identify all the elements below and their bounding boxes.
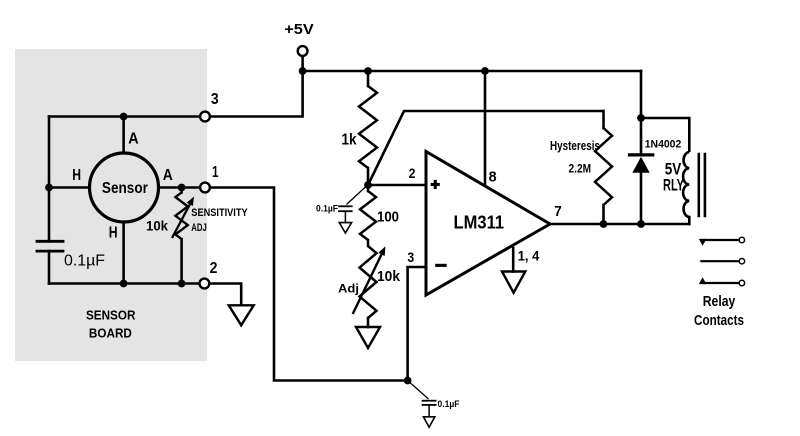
potentiometer sensitivity bottom lead [180, 239, 183, 283]
sensor (circular device) [90, 153, 159, 222]
potentiometer 10k zigzag [367, 240, 370, 246]
ground below 10k pot [356, 327, 380, 348]
ground at terminal 2 [229, 305, 254, 325]
capacitor 0.1uF bottom plates [423, 400, 436, 402]
wire: diode node over to relay coil top [641, 118, 689, 152]
wire: sensor right lead to terminal 1 [158, 186, 200, 189]
ground below node-2 capacitor [339, 223, 351, 233]
svg-text:1N4002: 1N4002 [645, 139, 682, 151]
svg-text:Hysteresis: Hysteresis [550, 139, 600, 153]
wire: feedback from node 2 up-right then to hysteresis resistor [368, 111, 604, 185]
wire: riser from rail down to terminal 3 [210, 71, 303, 117]
svg-text:1, 4: 1, 4 [518, 248, 540, 264]
wire: +5V stub down to top rail [301, 56, 304, 71]
relay contact row 1 [702, 239, 739, 241]
node: diode-relay junction [637, 114, 645, 122]
svg-text:ADJ: ADJ [191, 222, 207, 234]
relay coil K1 (4 loops) [683, 152, 689, 217]
svg-text:1: 1 [212, 164, 219, 181]
capacitor 0.1uF at bottom node (tap line) [408, 381, 429, 400]
svg-text:Sensor: Sensor [102, 180, 148, 197]
resistor hysteresis 2.2M zigzag [595, 128, 612, 205]
node: node 2 junction [364, 181, 372, 189]
relay contact row 3 [702, 282, 739, 284]
wire: terminal 2 to ground [209, 284, 241, 306]
svg-text:Contacts: Contacts [694, 313, 744, 329]
resistor hysteresis 2.2M bottom lead [602, 205, 605, 224]
relay contact terminal 1 [739, 237, 744, 242]
wire: sensor top lead [122, 117, 125, 154]
node: pin-8 rail junction [481, 67, 489, 75]
svg-text:2: 2 [409, 166, 416, 181]
wire: pin 8 from top rail into op-amp [484, 71, 487, 186]
wire: sensor board left vertical (above cap) [48, 117, 51, 242]
terminal 3 [200, 112, 210, 122]
node: pot top junction [178, 184, 186, 192]
svg-text:100: 100 [377, 210, 399, 226]
terminal 2 [200, 279, 210, 289]
node: sensor top-lead junction [120, 113, 128, 121]
node: hysteresis output junction [600, 220, 608, 228]
relay contact row 2 [700, 260, 739, 262]
wire: sensor board top run to terminal 3 [49, 115, 200, 118]
node: 1k top junction [364, 67, 372, 75]
relay coil bottom lead [688, 217, 691, 224]
svg-text:LM311: LM311 [454, 212, 505, 233]
wire: pin 3 stub and riser [408, 267, 426, 381]
svg-text:8: 8 [489, 169, 497, 186]
svg-text:0.1µF: 0.1µF [438, 399, 460, 410]
resistor R 1k (top lead) [367, 71, 370, 86]
label plus input [431, 183, 440, 186]
potentiometer 10k wiper arrow [353, 254, 382, 314]
node: sensor bottom-lead junction [120, 280, 128, 288]
label minus input [435, 264, 447, 267]
diode D1 1N4002 leads [640, 118, 643, 154]
svg-text:A: A [128, 130, 139, 147]
svg-text:0.1µF: 0.1µF [316, 204, 338, 215]
svg-text:H: H [109, 225, 118, 242]
ground at pins 1,4 [502, 272, 525, 293]
svg-text:BOARD: BOARD [89, 326, 132, 341]
relay contact terminal 2 [739, 259, 744, 264]
resistor R 100 zigzag [367, 186, 370, 191]
resistor hysteresis 2.2M lead [602, 111, 605, 128]
node: pot bottom junction [178, 280, 186, 288]
node: bottom-rail junction [404, 377, 412, 385]
svg-text:A: A [163, 167, 173, 184]
svg-text:10k: 10k [377, 269, 401, 285]
node: diode output junction [637, 220, 645, 228]
svg-text:5V: 5V [665, 160, 682, 178]
svg-text:2.2M: 2.2M [569, 163, 592, 176]
terminal 1 [200, 183, 210, 193]
sensor board shaded region [15, 49, 207, 361]
relay core bars [697, 154, 700, 216]
op-amp U1 LM311 triangle [426, 152, 550, 296]
node: sensor left-lead junction [45, 184, 53, 192]
wire: rail corner down to diode node [640, 71, 643, 118]
potentiometer sensitivity wiper arrow [172, 204, 190, 238]
pin 1,4 stub [512, 248, 515, 272]
relay contact terminal 3 [739, 280, 744, 285]
svg-text:SENSOR: SENSOR [86, 308, 136, 323]
wire: sensor board bottom run to terminal 2 [49, 282, 200, 285]
wire: sensor bottom lead [122, 222, 125, 284]
svg-text:SENSITIVITY: SENSITIVITY [191, 207, 247, 219]
resistor R 1k (bottom lead to node 2) [367, 168, 370, 186]
capacitor 0.1uF bottom stub [428, 405, 430, 417]
terminal +5V [298, 46, 308, 56]
capacitor 0.1uF at node 2 plates [339, 205, 352, 207]
wire: sensor board left vertical (below cap) [48, 251, 51, 283]
potentiometer 10k lead to ground [367, 318, 370, 327]
potentiometer 10k SENSITIVITY zigzag [180, 188, 183, 193]
svg-text:+5V: +5V [284, 22, 314, 38]
svg-text:0.1µF: 0.1µF [64, 253, 105, 270]
svg-text:2: 2 [210, 260, 218, 277]
capacitor C 0.1uF sensor board plates [37, 240, 63, 243]
wire: node 2 to op-amp plus input [368, 184, 426, 187]
capacitor 0.1uF node2 stub [344, 211, 346, 222]
svg-text:3: 3 [211, 91, 219, 108]
wire: output pin 7 rail [550, 223, 689, 226]
svg-text:1k: 1k [342, 132, 357, 149]
svg-text:Adj: Adj [338, 282, 359, 296]
svg-text:Relay: Relay [703, 294, 736, 310]
wire: terminal 1 over to inverting-input riser [210, 188, 408, 381]
ground below bottom capacitor [423, 417, 434, 427]
svg-text:RLY: RLY [663, 177, 684, 195]
diode D1 cathode bar [629, 153, 652, 156]
capacitor 0.1uF at node 2 (tap line) [347, 186, 368, 205]
svg-text:10k: 10k [146, 219, 168, 234]
wire: sensor left lead [49, 186, 90, 189]
diode D1 triangle [632, 157, 649, 173]
svg-text:7: 7 [554, 203, 562, 220]
wire: top +5V rail [303, 70, 641, 73]
resistor R 1k zigzag [359, 86, 377, 168]
node: +5V rail junction [299, 67, 307, 75]
svg-text:3: 3 [407, 250, 414, 265]
svg-text:H: H [72, 167, 81, 184]
